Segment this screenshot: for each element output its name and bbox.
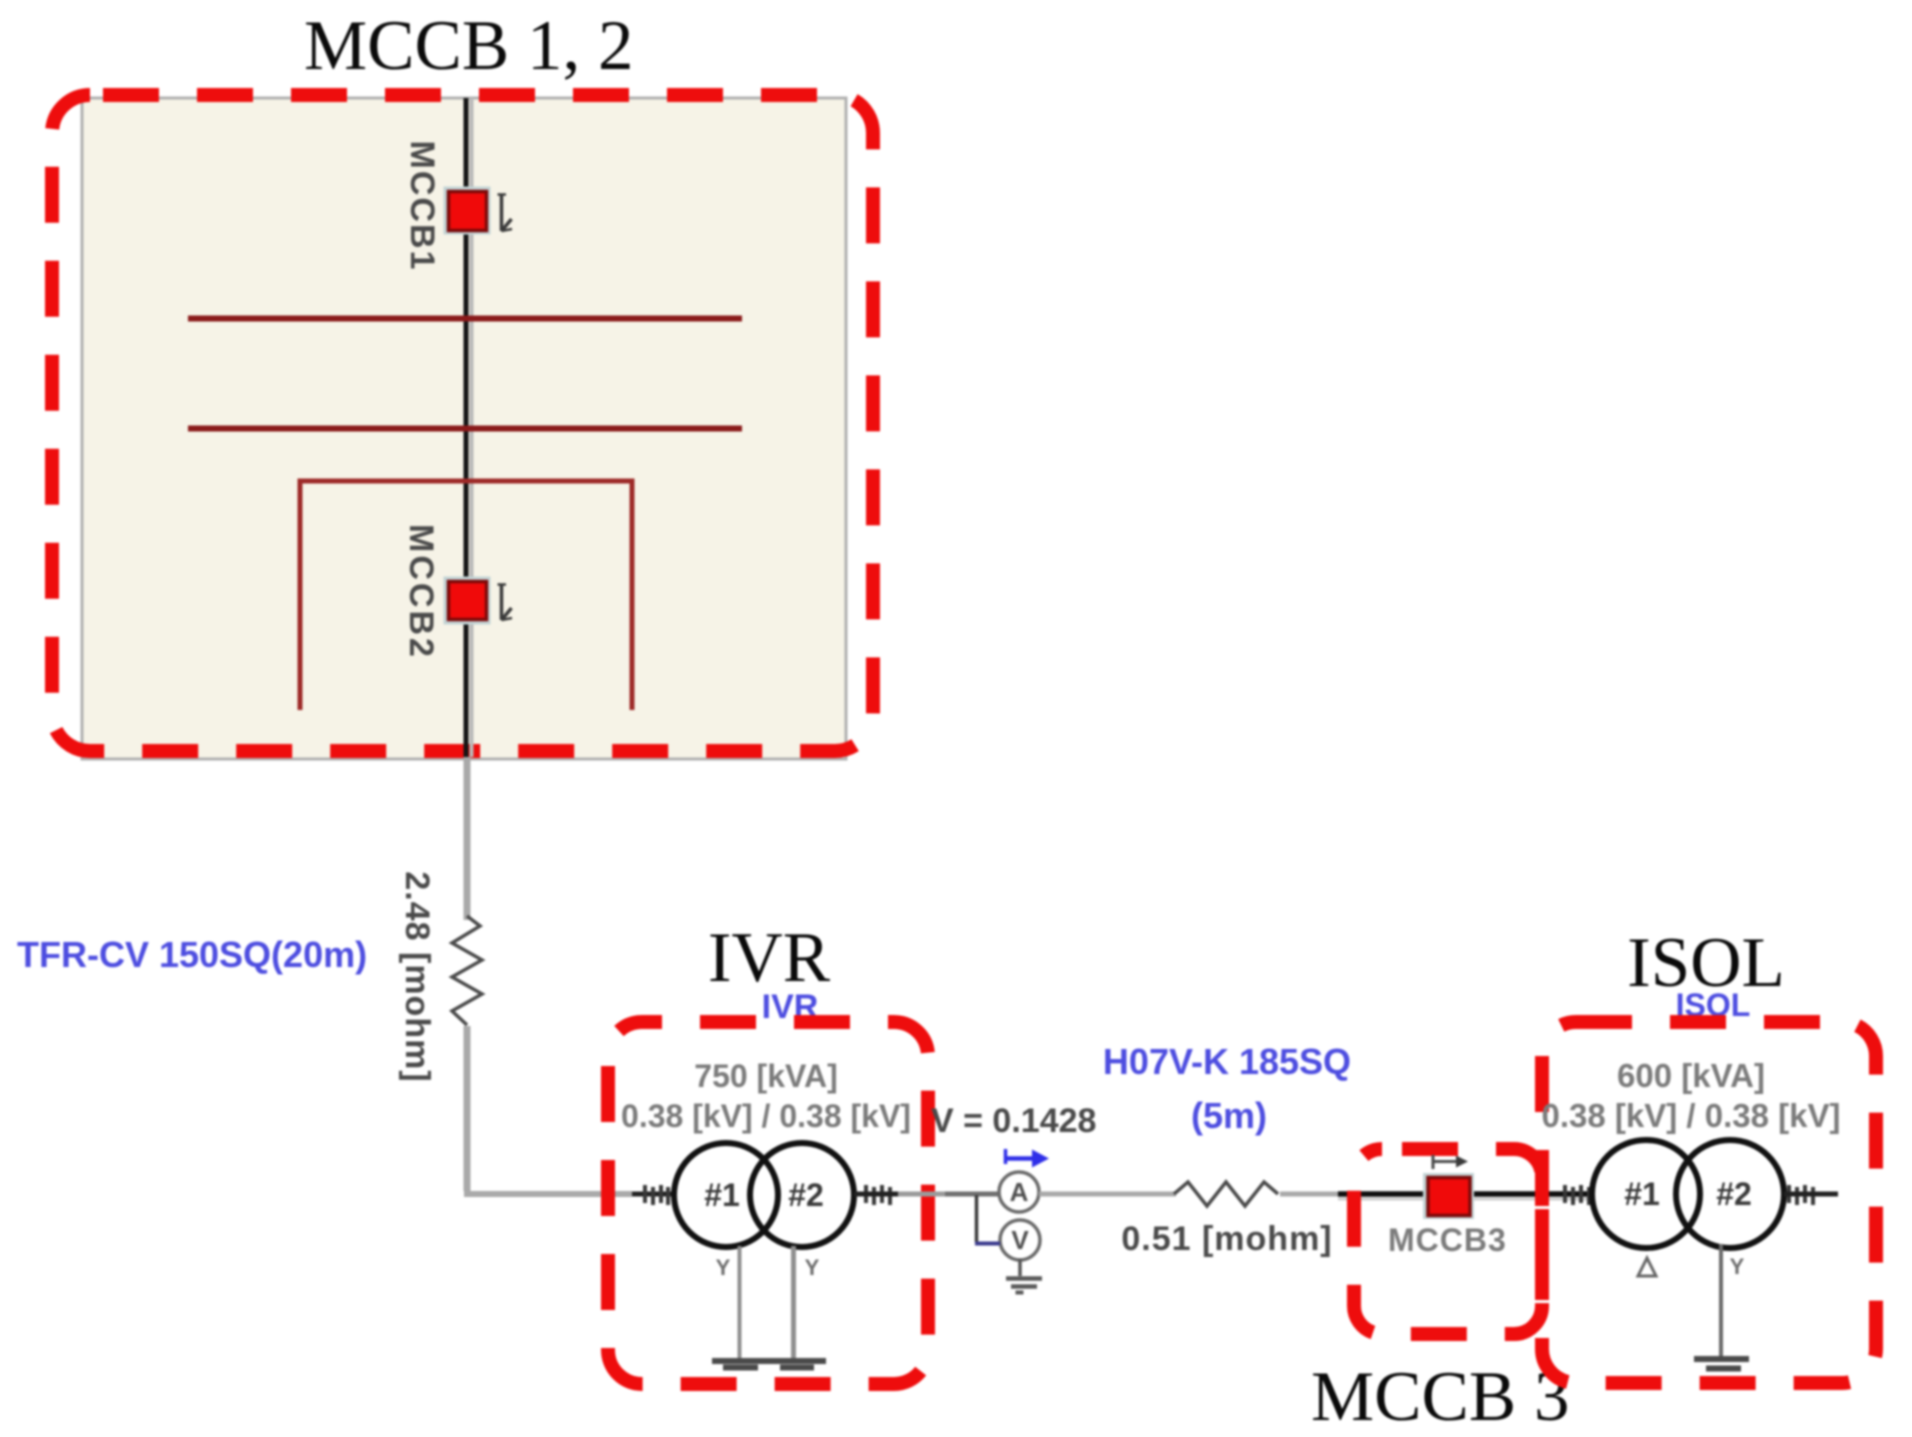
breaker MCCB2 [444, 577, 491, 625]
ground stems IVR [740, 1246, 794, 1360]
ground stem ISOL [1719, 1244, 1723, 1358]
wire stub into IVR [632, 1192, 676, 1197]
blue flow arrow at ammeter [1006, 1149, 1050, 1168]
svg-text:(5m): (5m) [1191, 1095, 1267, 1136]
transformer ISOL winding #2 [1676, 1140, 1784, 1248]
meter tap wire [975, 1195, 1000, 1244]
resistor (cable impedance 2.48 mohm, vertical zigzag) [452, 916, 482, 1025]
svg-text:750 [kVA]: 750 [kVA] [694, 1058, 837, 1094]
bus feeder wire (vertical, inside panel) [466, 98, 472, 757]
voltmeter V [1000, 1220, 1040, 1260]
wire stub out of IVR [854, 1192, 898, 1197]
label MCCB2 (rotated) [402, 524, 440, 660]
Y mark under ISOL #2 [1730, 1254, 1745, 1279]
svg-text:MCCB1: MCCB1 [403, 141, 441, 272]
wire elbow to IVR [467, 1189, 632, 1194]
cable label H07V-K 185SQ [1103, 1041, 1351, 1082]
label ISOL (blue) [1676, 987, 1751, 1023]
label IVR (title) [708, 919, 831, 997]
hash marks left of IVR [645, 1185, 668, 1205]
breaker MCCB1 [444, 187, 491, 235]
bus bar 1 [188, 316, 742, 322]
label IVR (blue) [762, 988, 819, 1026]
value V = 0.1428 [931, 1102, 1096, 1140]
resistor (cable impedance 0.51 mohm, horizontal zigzag) [1174, 1182, 1278, 1206]
arrow down at MCCB2 [498, 584, 513, 620]
svg-text:#1: #1 [704, 1177, 740, 1213]
label ISOL (title) [1627, 924, 1785, 1002]
value 0.38 [kV] / 0.38 [kV] (ISOL) [1542, 1097, 1841, 1134]
svg-text:#2: #2 [788, 1177, 824, 1213]
panel background (MCCB 1,2 enclosure) [82, 98, 846, 759]
breaker MCCB3 [1423, 1173, 1474, 1219]
wire resistor to MCCB3 [1280, 1192, 1340, 1197]
svg-text:0.38 [kV] / 0.38 [kV]: 0.38 [kV] / 0.38 [kV] [1542, 1097, 1841, 1134]
svg-text:0.38 [kV] / 0.38 [kV]: 0.38 [kV] / 0.38 [kV] [621, 1098, 911, 1134]
bus bar 2 [188, 426, 742, 432]
dashed highlight box MCCB 1,2 [52, 95, 873, 751]
svg-text:Y: Y [716, 1255, 731, 1280]
hash marks left of ISOL [1565, 1185, 1589, 1205]
svg-text:#2: #2 [1716, 1176, 1752, 1212]
label MCCB1 (rotated) [403, 141, 441, 272]
svg-text:H07V-K 185SQ: H07V-K 185SQ [1103, 1041, 1351, 1082]
label MCCB3 [1388, 1222, 1507, 1258]
dashed highlight box IVR [608, 1022, 928, 1384]
cable label TFR-CV 150SQ(20m) [17, 934, 367, 975]
cable label (5m) [1191, 1095, 1267, 1136]
svg-text:600 [kVA]: 600 [kVA] [1617, 1057, 1765, 1094]
arrow right at MCCB3 [1433, 1155, 1468, 1169]
transformer IVR winding #1 [674, 1143, 778, 1247]
svg-text:TFR-CV 150SQ(20m): TFR-CV 150SQ(20m) [17, 934, 367, 975]
cable TFR-CV drop wire (vertical below panel) [464, 757, 471, 1191]
svg-text:Y: Y [805, 1255, 820, 1280]
svg-text:MCCB 1, 2: MCCB 1, 2 [304, 7, 633, 85]
svg-text:MCCB3: MCCB3 [1388, 1222, 1507, 1258]
svg-text:MCCB 3: MCCB 3 [1311, 1358, 1569, 1436]
svg-text:V: V [1011, 1225, 1029, 1255]
svg-text:0.51 [mohm]: 0.51 [mohm] [1121, 1220, 1332, 1258]
value 750 [kVA] [694, 1058, 837, 1094]
dashed highlight box ISOL [1542, 1022, 1876, 1383]
ammeter A [999, 1172, 1039, 1212]
svg-text:IVR: IVR [708, 919, 831, 997]
Y marks under IVR [716, 1255, 820, 1280]
wire through MCCB3 (black) [1338, 1194, 1593, 1199]
wire out of ISOL [1784, 1192, 1838, 1197]
bus bracket (dark red U shape) [300, 481, 632, 710]
value 0.51 [mohm] [1121, 1220, 1332, 1258]
svg-text:V = 0.1428: V = 0.1428 [931, 1102, 1096, 1140]
transformer ISOL winding #1 [1592, 1140, 1700, 1248]
ground IVR [712, 1361, 826, 1368]
arrow down at MCCB1 [498, 194, 513, 231]
value 0.38 [kV] / 0.38 [kV] (IVR) [621, 1098, 911, 1134]
hash marks right of IVR [866, 1185, 890, 1205]
delta mark under ISOL #1 [1638, 1258, 1656, 1276]
wire IVR to ammeter [898, 1192, 1000, 1197]
svg-text:Y: Y [1730, 1254, 1745, 1279]
value 600 [kVA] [1617, 1057, 1765, 1094]
value 2.48 [mohm] (rotated) [398, 871, 436, 1082]
ground ISOL [1694, 1359, 1749, 1369]
hash marks right of ISOL [1789, 1185, 1813, 1205]
wire ammeter to resistor [1039, 1192, 1176, 1197]
dashed highlight box MCCB3 [1354, 1149, 1542, 1334]
svg-text:A: A [1010, 1177, 1029, 1207]
ground under voltmeter [1006, 1259, 1042, 1293]
transformer IVR winding #2 [750, 1143, 854, 1247]
label MCCB 3 (title) [1311, 1358, 1569, 1436]
svg-text:MCCB2: MCCB2 [402, 524, 440, 660]
label MCCB 1, 2 [304, 7, 633, 85]
svg-text:2.48 [mohm]: 2.48 [mohm] [398, 871, 436, 1082]
svg-text:#1: #1 [1624, 1176, 1660, 1212]
